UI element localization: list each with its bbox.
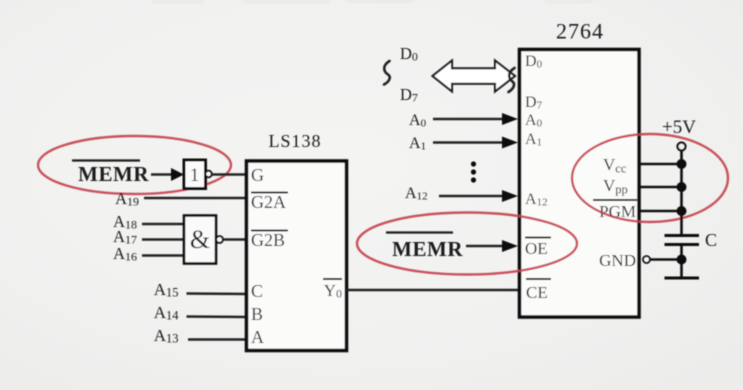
svg-text:B: B [251,304,263,324]
ellipsis dots between A1 and A12 [471,161,476,182]
decoder U1 LS138 [247,131,347,351]
svg-text:OE: OE [525,239,548,258]
pin label Y0 [323,279,342,301]
svg-text:C: C [705,230,717,250]
svg-text:A: A [251,327,264,347]
wire Vpp to rail [640,186,682,189]
wire A16 to AND gate [142,254,185,256]
junction dot GND [677,255,687,265]
signal label /MEMR (middle) [386,233,463,262]
inverter gate U2 "1" [184,160,212,189]
junction dot Vpp [677,182,687,192]
pin label CE [526,279,551,302]
ground symbol [665,277,700,280]
bus range squiggle (left) [384,61,390,85]
svg-text:CE: CE [526,283,548,302]
svg-text:MEMR: MEMR [78,162,149,186]
svg-text:G2A: G2A [251,192,286,212]
svg-text:G2B: G2B [251,230,285,250]
junction dot PGM [677,206,687,216]
red highlight ellipse around MEMR inverter [38,136,231,194]
junction dot Vcc [677,159,687,169]
svg-text:+5V: +5V [662,117,696,138]
AND gate U3 "&" [184,216,223,264]
signal label /MEMR (left) [72,161,149,187]
wire GND pin to rail [650,258,682,261]
capacitor C [665,230,718,250]
wire Vcc to rail [640,163,682,166]
power rail wire [680,151,683,235]
pin label G2A [251,192,288,212]
red highlight ellipse around MEMR and OE [357,213,577,275]
wire capacitor to ground [680,245,683,279]
wire A14 to pin B [187,315,248,318]
svg-text:&: & [190,225,210,254]
svg-text:GND: GND [599,251,636,270]
wire A19 to pin G2A [144,197,247,199]
pin label OE [525,238,551,259]
wire A12 with arrowhead [439,190,518,202]
faint cropped text remnants at top edge [152,0,593,4]
wire A18 to AND gate [142,223,185,225]
pin label G2B [251,230,288,250]
wire MEMR to OE with arrowhead [466,240,518,252]
pin label PGM [593,200,637,221]
wire Y0 to CE [346,289,520,291]
wire A0 with arrowhead [433,113,518,125]
wire A17 to AND gate [142,238,185,240]
svg-text:G: G [251,165,264,185]
svg-text:MEMR: MEMR [392,237,463,261]
red highlight ellipse around power pins [572,134,728,222]
wire A13 to pin A [188,338,247,340]
GND pin bubble [643,256,650,263]
wire inverter to pin G [212,173,247,175]
EPROM U4 2764 [520,19,640,318]
+5V terminal circle [678,143,686,151]
svg-text:LS138: LS138 [268,131,321,151]
svg-text:1: 1 [190,165,200,186]
bidirectional data bus arrow [433,61,516,92]
wire A1 with arrowhead [433,137,518,149]
svg-text:2764: 2764 [556,19,604,44]
bus range squiggle (right, at chip edge) [509,68,515,92]
wire AND gate to pin G2B [223,238,247,240]
svg-text:C: C [251,281,263,301]
wire MEMR to inverter with arrowhead [151,168,184,181]
wire PGM to rail [640,210,682,213]
wire A15 to pin C [187,292,248,295]
